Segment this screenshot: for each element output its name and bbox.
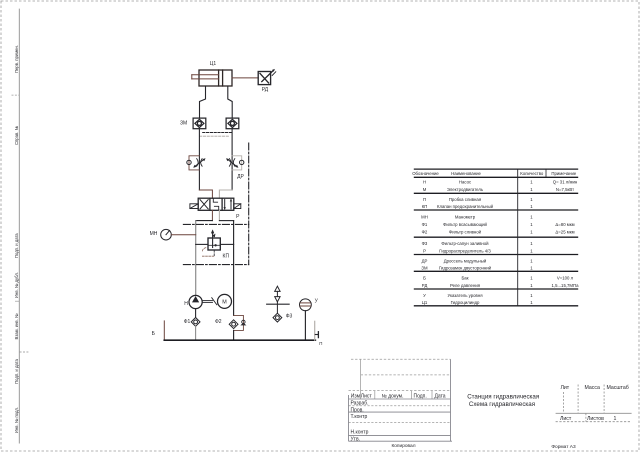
svg-text:Формат А3: Формат А3 [551,444,576,450]
breather filter Ф3 [273,313,282,322]
svg-text:Фильтр всасывающий: Фильтр всасывающий [443,222,487,227]
svg-text:Станция гидравлическая: Станция гидравлическая [467,393,539,400]
svg-text:ЗМ: ЗМ [180,121,187,127]
document name [467,393,539,408]
svg-text:Ф2: Ф2 [215,319,222,325]
svg-text:№ докум.: № докум. [382,394,404,400]
wire throttle to valve port B [219,190,232,198]
pressure switch РД arrowhead [272,69,275,72]
title block header texts [351,394,446,443]
pressure gauge МН [161,229,172,240]
breather Ф3 triangles [275,286,280,302]
return filter Ф2 [229,320,238,329]
breather Ф3 bar [267,303,289,305]
pilot line dashed upper [203,132,232,134]
svg-text:М: М [423,187,427,192]
svg-text:П: П [423,197,426,202]
bottom strip labels [391,443,575,450]
wire pressure line to КП [196,243,208,245]
drain plug П [317,332,319,338]
svg-text:М: М [222,300,227,306]
pressure switch РД contact tick [272,72,276,76]
svg-text:КП: КП [223,253,230,259]
svg-text:Н.контр: Н.контр [351,430,369,436]
svg-text:Примечание: Примечание [551,171,576,176]
cylinder Ц1 body [199,70,232,86]
wire pump to filter [195,309,197,318]
tank Б [163,321,165,340]
hydraulic lock ЗМ left check valve [193,118,206,129]
suction filter Ф1 [191,318,200,327]
svg-text:Δ=25 мкм: Δ=25 мкм [555,229,574,234]
svg-text:МН: МН [421,214,428,219]
svg-text:У: У [423,293,426,298]
svg-text:Ф1: Ф1 [184,319,191,325]
svg-text:П: П [319,341,322,346]
svg-text:Q= 31 л/мин: Q= 31 л/мин [553,179,578,184]
junction dot in КП [214,244,216,246]
svg-text:N=7,5кВт: N=7,5кВт [556,187,574,192]
wire return filter to tank [233,330,235,340]
svg-text:Т.контр: Т.контр [351,414,368,420]
svg-text:Наименование: Наименование [451,171,481,176]
svg-text:Подп. и дата: Подп. и дата [14,233,19,258]
svg-text:Дата: Дата [435,394,446,400]
throttle ДР right: arrow [227,159,237,167]
svg-text:Инв. № подл.: Инв. № подл. [14,407,19,433]
svg-text:Электродвигатель: Электродвигатель [447,187,484,192]
svg-text:Обозначение: Обозначение [412,171,439,176]
valve Р left position crossed arrows [200,200,208,209]
margin separator tick 2 [20,351,30,353]
cylinder Ц1 piston rod [192,75,219,79]
svg-text:Гидрораспределитель 4/3: Гидрораспределитель 4/3 [439,248,491,253]
svg-text:МН: МН [150,231,158,237]
svg-text:Справ. №: Справ. № [14,125,19,145]
throttle ДР left: bypass check [189,156,199,170]
svg-text:Копировал: Копировал [391,443,415,449]
svg-text:Масштаб: Масштаб [607,385,629,391]
svg-text:Ф1: Ф1 [422,222,428,227]
valve Р left solenoid [190,204,198,209]
wire filter to tank [195,326,197,340]
svg-text:Дроссель модульный: Дроссель модульный [444,259,487,264]
svg-text:Пробка сливная: Пробка сливная [449,197,482,202]
svg-text:Реле давления: Реле давления [450,283,481,288]
svg-text:РД: РД [262,87,269,93]
svg-text:ЗМ: ЗМ [421,266,428,271]
throttle ДР right: arcs [229,159,234,167]
title block revision rows [349,359,451,422]
frame left vertical [18,9,20,444]
pressure line pump riser [195,221,197,296]
svg-text:Бак: Бак [461,276,468,281]
svg-text:Насос: Насос [459,179,472,184]
svg-text:Гидроцилиндр: Гидроцилиндр [451,300,480,305]
motor М [218,294,232,308]
svg-text:Лит: Лит [561,385,570,391]
throttle ДР left: arcs [197,159,202,167]
svg-text:Гидрозамок двусторонний: Гидрозамок двусторонний [439,266,492,271]
relief valve КП body [208,238,220,250]
svg-text:Разраб.: Разраб. [351,401,369,407]
valve Р right solenoid [234,204,241,209]
svg-text:Манометр: Манометр [455,214,476,219]
wire КП to return line [220,243,233,245]
wire cylinder to pressure switch [232,77,258,79]
level indicator У [300,299,312,311]
svg-text:ДР: ДР [422,259,428,264]
svg-text:Инв. № дубл.: Инв. № дубл. [14,272,19,298]
valve Р centre position [213,199,218,210]
svg-text:Н: Н [423,179,426,184]
svg-text:Фильтр сливной: Фильтр сливной [449,229,482,234]
svg-text:Р: Р [423,248,426,253]
svg-text:Листов: Листов [587,416,604,422]
wire lock to throttle left [198,129,200,190]
svg-text:РД: РД [422,283,428,288]
svg-text:1,5...15,7МПа: 1,5...15,7МПа [552,283,580,288]
directional valve Р body [198,198,234,210]
title block right texts [560,385,629,422]
svg-text:Н: Н [184,301,188,307]
wire cylinder right port to lock [228,86,232,118]
wire gauge to pressure line [171,234,195,236]
wire valve T port down [218,210,220,220]
pilot line dashed lower [200,135,229,137]
svg-text:Подп.: Подп. [414,394,427,400]
svg-text:Перв. примен.: Перв. примен. [14,45,19,73]
valve Р right position parallel arrows [225,199,231,209]
svg-text:Ф3: Ф3 [422,241,428,246]
svg-text:Б: Б [423,276,426,281]
wire level indicator to tank [304,311,306,341]
svg-text:Указатель уровня: Указатель уровня [447,293,483,298]
relief valve КП arrow [212,231,214,247]
svg-text:Ц1: Ц1 [422,300,428,305]
return filter Ф2 bypass [234,315,244,330]
title block main lines [349,359,453,441]
enclosure boundary vertical [248,143,250,265]
svg-text:Ф3: Ф3 [286,314,293,320]
pressure switch РД [258,70,273,84]
svg-text:Лист: Лист [361,394,373,400]
throttle ДР left: arrow [194,159,204,167]
margin separator tick 1 [15,300,19,302]
margin separator tick 3 [12,94,20,96]
wire throttle to valve port A [199,190,212,198]
svg-text:Схема гидравлическая: Схема гидравлическая [469,401,535,408]
pump Н [189,295,202,308]
svg-text:Ф2: Ф2 [422,229,428,234]
enclosure boundary top [183,223,248,225]
svg-text:V=100 л: V=100 л [557,276,574,281]
return line riser [233,221,235,316]
breather Ф3 stem [276,302,278,313]
svg-text:Масса: Масса [585,385,600,391]
svg-text:Δ=80 мкм: Δ=80 мкм [555,222,574,227]
svg-text:Количество: Количество [520,171,544,176]
relief valve КП pilot dashed [202,248,205,252]
svg-text:Подп. и дата: Подп. и дата [14,358,19,383]
hydraulic lock ЗМ right check valve [226,118,239,129]
shaft coupling [202,298,216,305]
svg-text:ДР: ДР [237,174,244,180]
wire lock to throttle right [231,129,233,190]
svg-text:1: 1 [614,416,617,422]
svg-text:Утв.: Утв. [351,436,361,442]
parts table [414,169,578,306]
enclosure boundary bottom [183,264,248,266]
svg-text:Пров.: Пров. [351,407,364,413]
svg-text:Взам. инв. №: Взам. инв. № [14,313,19,339]
svg-text:Фильтр-сапун заливной: Фильтр-сапун заливной [441,241,489,246]
title block right section lines [556,385,632,422]
throttle ДР right: bypass check [232,156,242,170]
svg-text:Клапан предохранительный: Клапан предохранительный [437,204,494,209]
wire valve P port down [211,210,213,220]
svg-text:Лист: Лист [560,416,572,422]
svg-text:Ц1: Ц1 [210,61,217,67]
svg-text:Изм: Изм [351,394,361,400]
svg-text:КП: КП [422,204,428,209]
wire cylinder left port to lock [200,86,206,118]
